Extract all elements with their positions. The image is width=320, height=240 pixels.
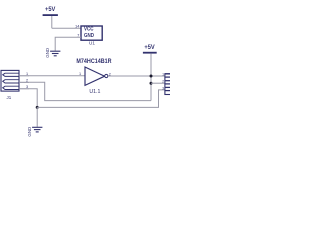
svg-text:1: 1 [79,72,81,76]
node junction (GND rail) [36,106,39,109]
wire +5V stem down to bottom rail corner [150,54,152,101]
svg-text:3: 3 [162,86,164,90]
J1 pin stubs + numbers [19,76,29,89]
label M74HC14B1R [76,59,112,65]
ground (upper) [50,51,60,56]
wire J1.1 to inverter input [29,75,85,77]
svg-text:J1: J1 [7,95,12,100]
label U1.1 [89,89,100,95]
svg-text:U1: U1 [89,41,95,46]
svg-text:+5V: +5V [144,44,155,51]
wire J1.2 down-around to bottom rail [29,82,151,100]
power symbol +5V (left) [43,6,58,29]
svg-text:3: 3 [26,85,28,89]
wire junction down to ground (bottom) [36,107,38,127]
wire J1.3 to ground rail [29,89,37,108]
wire GND rail to J2.3 [37,90,165,108]
svg-text:1: 1 [162,72,164,76]
wire U1 GND pin 7 to ground [55,37,81,51]
svg-text:1: 1 [26,72,28,76]
wire inverter output to J2.1 [108,75,165,77]
ground (bottom) [32,127,42,132]
svg-text:2: 2 [26,79,28,83]
svg-text:GND: GND [45,48,50,58]
svg-text:GND: GND [27,127,32,137]
svg-text:2: 2 [162,80,164,84]
wire +5V to U1 VCC pin 14 [52,27,81,29]
svg-text:U1.1: U1.1 [89,89,100,95]
svg-text:GND: GND [84,33,95,39]
wire junction to J2.2 [151,82,165,84]
svg-text:14: 14 [75,23,80,28]
node junction J2.2 branch [150,82,153,85]
inverter U1.1 triangle [85,67,105,85]
J2 pin numbers [162,72,164,90]
svg-text:VCC: VCC [84,26,94,32]
power box U1 (VCC/GND) [81,26,102,40]
power symbol +5V (right) [143,44,157,54]
node junction output/+5V [150,75,153,78]
connector J2 (clipped at right edge) [165,74,183,95]
inverter bubble [105,74,108,77]
svg-text:+5V: +5V [45,6,56,13]
connector J1 [1,70,19,91]
svg-text:M74HC14B1R: M74HC14B1R [76,59,112,65]
